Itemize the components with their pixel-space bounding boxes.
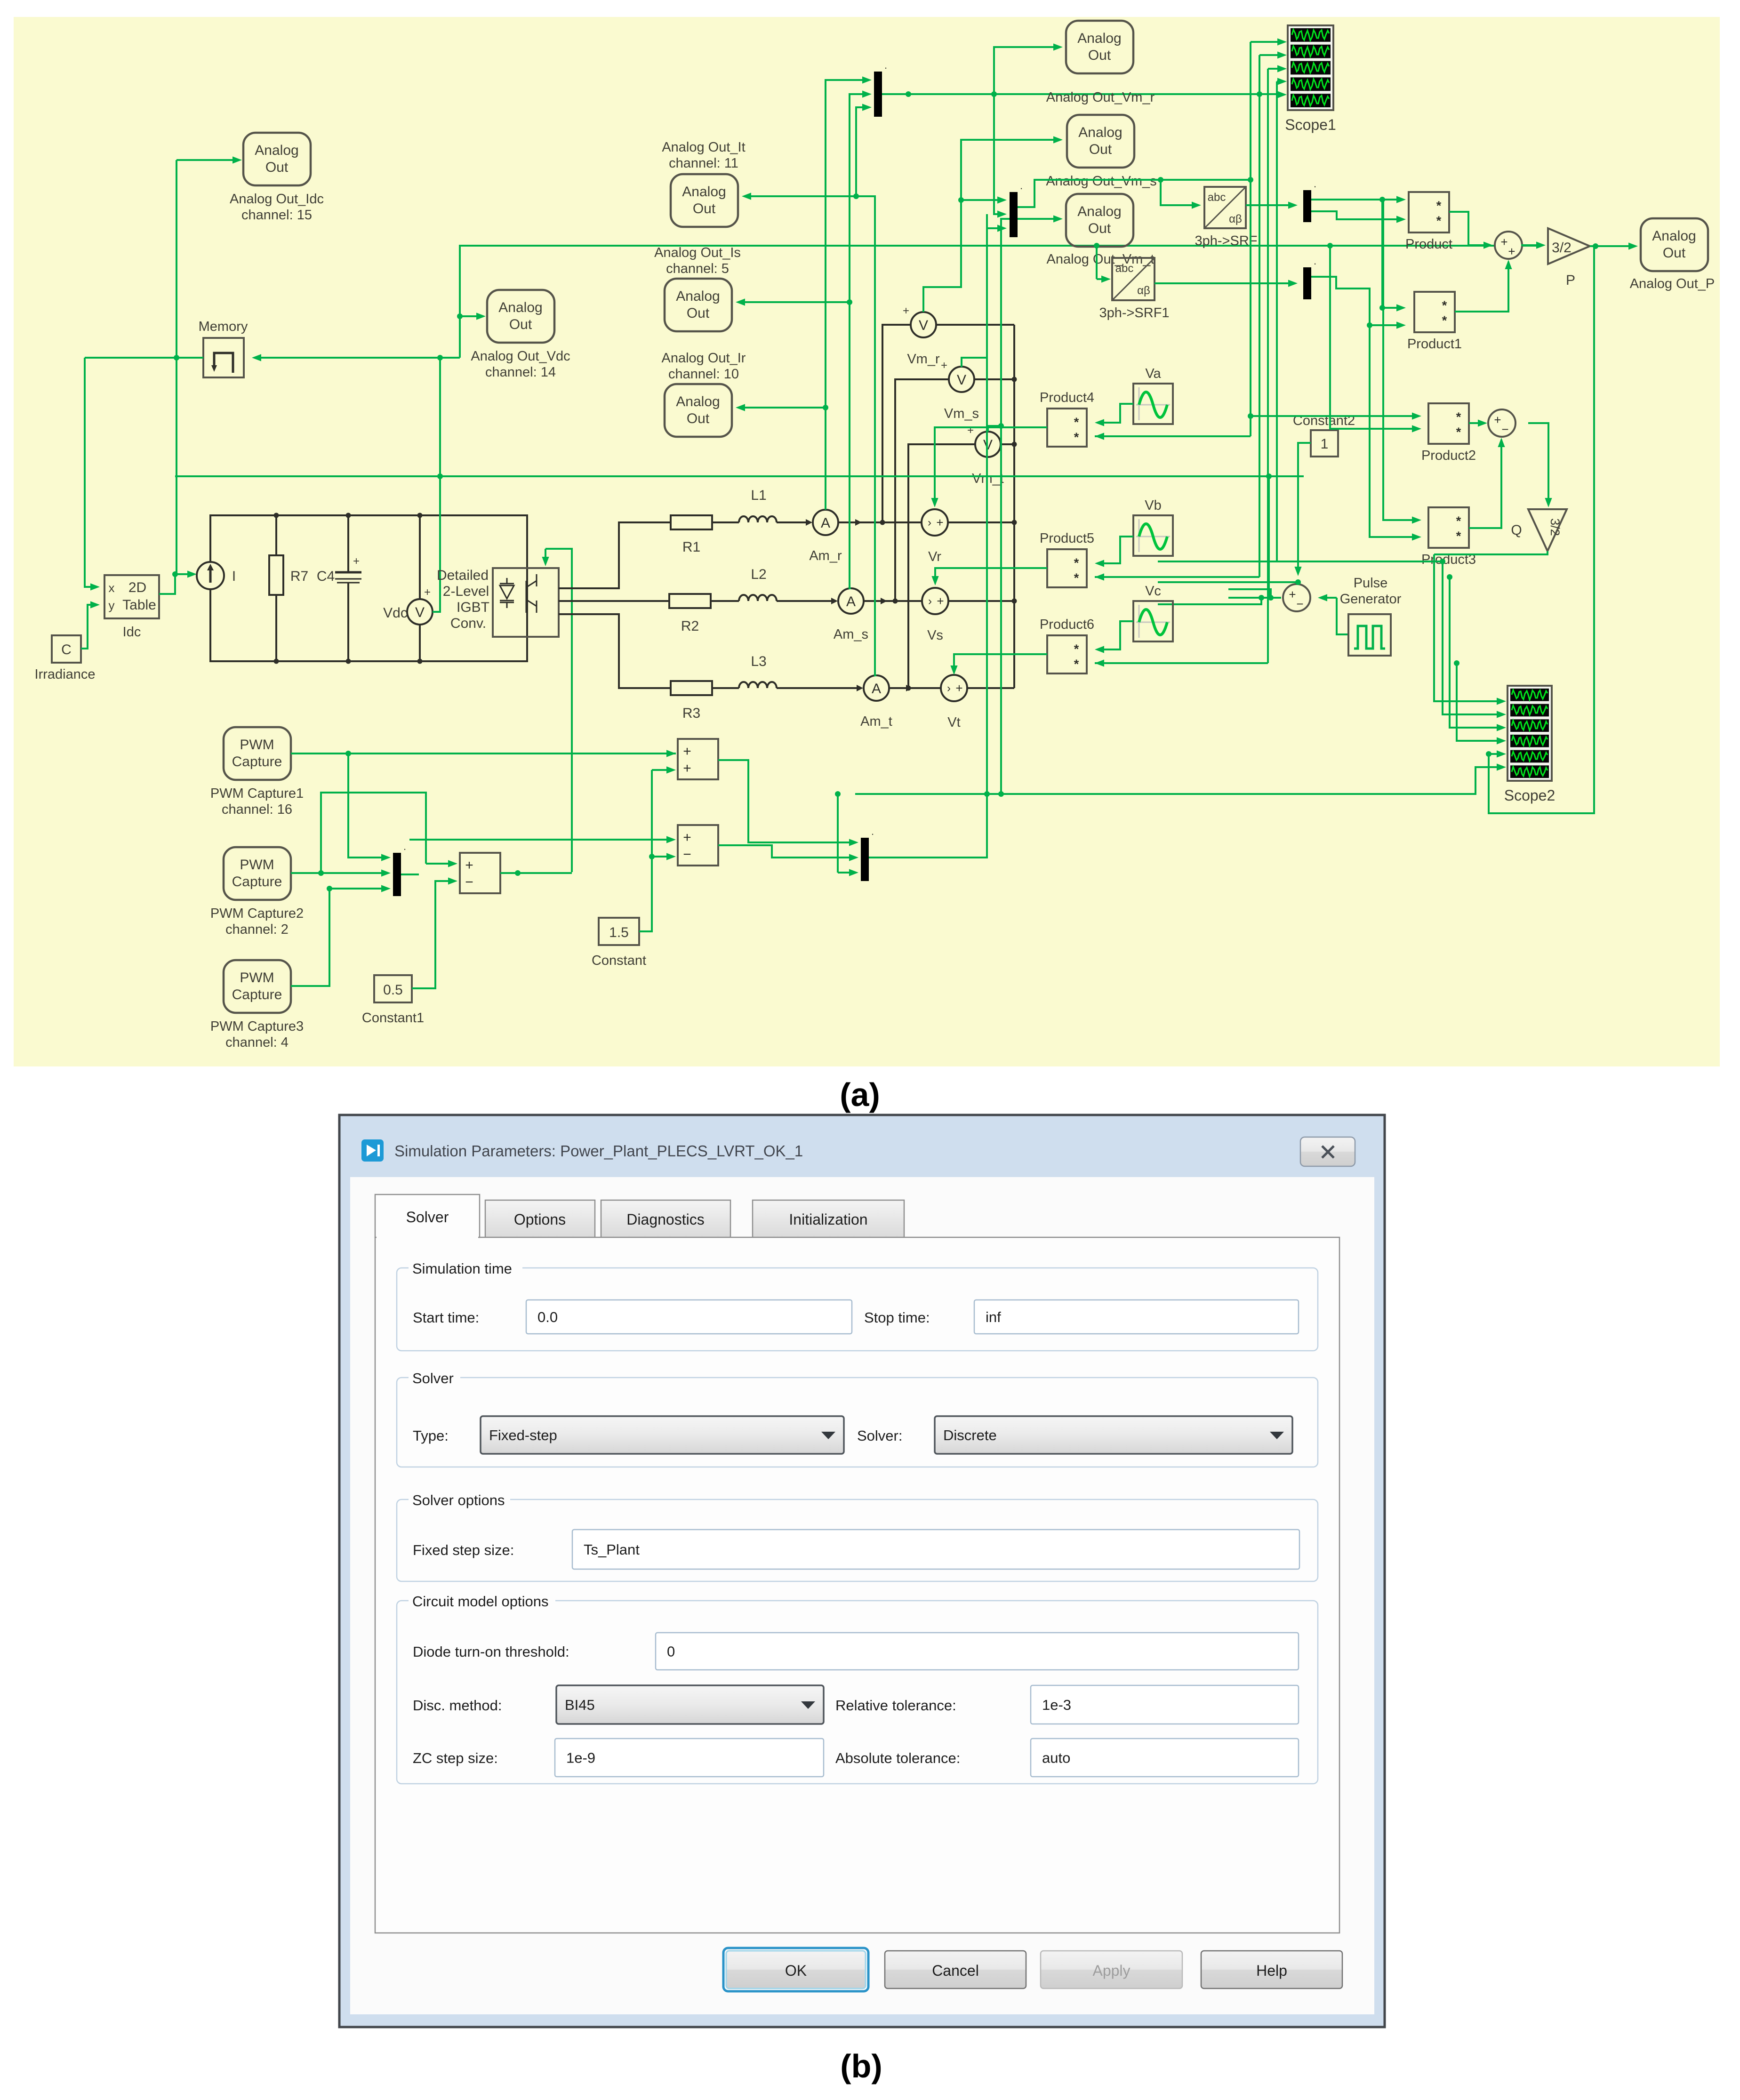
wire vertical net x2657 <box>1250 42 1251 436</box>
junction It <box>853 193 859 199</box>
wire Memory out to 2D Table x input <box>85 358 93 587</box>
arrow Scope2 input <box>1497 737 1506 744</box>
svg-text:PWM Capture1: PWM Capture1 <box>210 786 304 801</box>
svg-text:C4: C4 <box>317 569 335 584</box>
wire Vs to bus <box>949 600 1014 602</box>
wire Vm_s signal to mux2 in3 <box>962 228 1002 367</box>
svg-text:Vc: Vc <box>1145 584 1161 599</box>
svg-text:Simulation time: Simulation time <box>412 1260 512 1277</box>
wire PWM3 out <box>291 889 329 986</box>
phase wires after ammeters <box>838 521 921 523</box>
svg-text:Vdc: Vdc <box>383 605 408 621</box>
svg-text:Analog: Analog <box>1652 228 1696 244</box>
wire into mux6 in3 <box>838 872 855 874</box>
wire PG out elbow <box>1337 598 1348 634</box>
product Product2 <box>1428 403 1469 444</box>
svg-text:Analog Out_P: Analog Out_P <box>1630 276 1715 291</box>
wire net to Scope2 in4 <box>1457 663 1500 741</box>
svg-text:›: › <box>928 516 931 529</box>
svg-text:*: * <box>1074 430 1079 444</box>
svg-text:›: › <box>928 595 932 608</box>
svg-text:Solver: Solver <box>406 1209 449 1226</box>
svg-text:αβ: αβ <box>1229 213 1242 225</box>
svg-text:channel: 4: channel: 4 <box>225 1035 289 1050</box>
wire Scope1 in3 <box>1268 68 1281 70</box>
arrow Scope2 input <box>1497 697 1506 705</box>
gain 3/2 Q <box>1528 509 1567 551</box>
svg-text:Conv.: Conv. <box>450 616 486 631</box>
wire mux5 out stub <box>401 874 419 875</box>
transform block 3ph->SRF <box>1204 187 1246 228</box>
content panel <box>375 1237 1339 1933</box>
wire into Sub2 minus <box>652 856 672 858</box>
wire Va to Product4 in1 <box>1100 404 1133 423</box>
input Relative tolerance <box>1031 1685 1299 1724</box>
svg-text:channel: 15: channel: 15 <box>241 208 312 223</box>
svg-text:channel: 10: channel: 10 <box>668 367 739 382</box>
svg-text:.: . <box>884 59 887 71</box>
svg-text:Capture: Capture <box>232 987 282 1002</box>
svg-text:Start time:: Start time: <box>413 1309 479 1326</box>
wire Vdc net to right along y522 <box>460 246 1540 358</box>
svg-text:I: I <box>232 569 236 584</box>
PWM Capture block 1 <box>224 727 291 780</box>
svg-text:.: . <box>871 826 874 837</box>
node Am_t out <box>906 686 911 691</box>
svg-text:*: * <box>1456 529 1461 543</box>
svg-text:PWM: PWM <box>240 970 274 986</box>
svg-text:Product: Product <box>1405 237 1452 252</box>
arrow Scope2 input <box>1497 724 1506 731</box>
button OK <box>723 1948 868 1991</box>
svg-text:abc: abc <box>1115 262 1134 275</box>
wire to Sub1 plus <box>426 863 454 865</box>
svg-text:BI45: BI45 <box>565 1697 595 1713</box>
svg-text:.: . <box>403 841 406 852</box>
junction Vdc/mid net <box>437 473 443 479</box>
svg-text:PWM: PWM <box>240 737 274 753</box>
wire Product3 in2 feed <box>1370 325 1416 537</box>
svg-text:+: + <box>1289 587 1296 601</box>
wire Sub2 out to mux6 <box>718 845 855 858</box>
wire Product4 out to Vr <box>935 427 1047 503</box>
constant C Irradiance <box>52 635 81 663</box>
svg-text:Am_r: Am_r <box>809 548 842 563</box>
svg-text:Analog: Analog <box>682 184 726 200</box>
svg-text:Out: Out <box>693 201 716 216</box>
svg-text:+: + <box>683 744 691 759</box>
svg-text:Analog Out_Ir: Analog Out_Ir <box>662 351 746 366</box>
capacitor C4 <box>347 515 349 572</box>
svg-text:Fixed-step: Fixed-step <box>489 1427 557 1443</box>
svg-text:(b): (b) <box>840 2048 882 2084</box>
junction <box>1379 305 1385 311</box>
PWM Capture block 2 <box>224 847 291 900</box>
svg-text:Help: Help <box>1256 1962 1287 1979</box>
wire It signal <box>747 195 856 197</box>
wire rail y1237 <box>1158 581 1298 583</box>
inductor L2 <box>739 595 777 601</box>
sum Sub1 <box>460 853 500 893</box>
svg-text:αβ: αβ <box>1137 284 1150 297</box>
wire riser to comparator <box>1268 476 1270 598</box>
wire mux3 out1 to Product in1 <box>1311 199 1400 200</box>
wire vertical net x2694 <box>1267 69 1269 663</box>
junction <box>1248 413 1253 419</box>
wire PWM2 branch to Sub1 <box>321 793 426 873</box>
svg-text:+: + <box>1508 244 1515 258</box>
wire mux3 out2 to Product in2 <box>1311 211 1400 219</box>
wire sumQ to gain Q <box>1528 423 1548 502</box>
wire Pulse Generator to sum <box>1323 597 1337 599</box>
svg-text:3/2: 3/2 <box>1552 240 1572 256</box>
junction Ir <box>823 405 828 410</box>
svg-text:Solver:: Solver: <box>857 1427 902 1444</box>
wire vertical net x2676 <box>1259 55 1260 577</box>
bus node <box>1012 520 1017 525</box>
wire Constant2 to sum <box>1298 443 1311 570</box>
junction rail <box>984 791 990 797</box>
wire big feedback loop <box>1489 246 1594 813</box>
svg-text:Fixed step size:: Fixed step size: <box>413 1542 514 1558</box>
node <box>274 659 279 664</box>
2D Table block Idc <box>104 575 159 618</box>
svg-text:Analog: Analog <box>676 289 720 304</box>
group box Solver options <box>397 1499 1318 1581</box>
phase R wire <box>559 522 806 588</box>
input Stop time <box>974 1300 1299 1334</box>
gain 3/2 P <box>1548 228 1590 264</box>
svg-text:channel: 11: channel: 11 <box>669 156 738 171</box>
svg-text:Irradiance: Irradiance <box>35 667 96 682</box>
svg-text:Vr: Vr <box>928 549 941 564</box>
wire Am_t signal to mux1 in3 <box>856 107 876 675</box>
node bus <box>1012 442 1017 447</box>
wire Vm_r signal riser to block2 <box>923 140 1057 312</box>
transform block 3ph->SRF1 <box>1112 258 1155 300</box>
input Diode threshold <box>656 1633 1299 1670</box>
pulse generator block <box>1348 614 1391 656</box>
Analog Out block Vm_t out <box>1066 194 1133 247</box>
svg-text:+: + <box>967 424 974 437</box>
svg-text:R7: R7 <box>290 569 308 584</box>
ammeter Am_t <box>864 675 889 701</box>
wire Product5 out to Vs <box>935 568 1047 581</box>
PWM Capture block 3 <box>224 960 291 1013</box>
junction Vdc net <box>437 355 443 361</box>
junction <box>515 870 521 876</box>
svg-text:+: + <box>683 830 691 845</box>
svg-text:Am_s: Am_s <box>834 627 868 642</box>
svg-text:ZC step size:: ZC step size: <box>413 1750 498 1766</box>
wire net to Scope2 in2 <box>1443 561 1500 714</box>
svg-text:.: . <box>1314 178 1316 190</box>
converter block Detailed 2-Level IGBT Conv. <box>493 568 559 637</box>
arrow Scope2 input <box>1497 750 1506 757</box>
svg-text:R1: R1 <box>682 539 700 555</box>
svg-text:Product5: Product5 <box>1040 531 1094 546</box>
svg-text:1.5: 1.5 <box>609 925 629 940</box>
constant 1.5 Constant <box>599 918 639 945</box>
sum P <box>1495 232 1522 259</box>
sum Q input <box>1488 409 1515 437</box>
svg-text:Am_t: Am_t <box>860 714 892 729</box>
arrow Scope1 input <box>1277 91 1287 98</box>
Analog Out block Vm_s out <box>1067 115 1134 168</box>
wire Constant 1.5 riser <box>639 770 652 931</box>
arrow Scope1 input <box>1277 65 1287 72</box>
Analog Out block Analog Out_Idc <box>243 133 311 185</box>
node <box>274 513 279 518</box>
wire rail y1193 <box>1158 561 1443 562</box>
node <box>417 513 423 518</box>
svg-text:*: * <box>1456 410 1461 424</box>
svg-text:Vt: Vt <box>947 715 960 730</box>
svg-text:Product2: Product2 <box>1421 448 1476 463</box>
wire mux4 out to Product1 in2 <box>1311 277 1400 325</box>
node Am_r out <box>880 520 885 525</box>
input ZC step size <box>555 1739 824 1777</box>
dropdown Solver Discrete <box>935 1416 1292 1454</box>
svg-text:3/2: 3/2 <box>1548 518 1562 536</box>
svg-text:Vm_r: Vm_r <box>907 352 940 367</box>
Analog Out block Vm_r out <box>1066 21 1133 73</box>
group box Simulation time <box>397 1268 1318 1351</box>
svg-text:Circuit model options: Circuit model options <box>412 1593 548 1610</box>
svg-text:PWM: PWM <box>240 857 274 873</box>
junction 1.5 net <box>649 854 655 859</box>
svg-text:Analog Out_It: Analog Out_It <box>662 140 745 155</box>
wire Scope2 in5 <box>1489 753 1500 755</box>
node <box>346 513 351 518</box>
resistor R7 <box>275 515 277 555</box>
tab Initialization <box>753 1200 904 1238</box>
svg-text:1e-9: 1e-9 <box>566 1750 595 1766</box>
svg-text:Relative tolerance:: Relative tolerance: <box>835 1697 956 1714</box>
wire mux6 out riser x2097 <box>869 214 987 858</box>
svg-text:Capture: Capture <box>232 874 282 890</box>
wire vertical net x2713 <box>1276 81 1278 561</box>
junction Idc/Memory row <box>174 355 179 361</box>
wire Product to sum <box>1449 212 1487 245</box>
wire to mux2 in1 <box>961 199 1002 201</box>
voltage source Vr <box>922 509 948 536</box>
svg-text:V: V <box>957 372 966 388</box>
wire Vdc measurement signal up <box>433 358 440 612</box>
svg-text:L3: L3 <box>751 654 766 669</box>
junction <box>1248 177 1253 183</box>
wire to Product1 in1 <box>1382 200 1400 308</box>
svg-text:Out: Out <box>1088 221 1111 236</box>
svg-text:Product4: Product4 <box>1040 390 1094 405</box>
svg-text:P: P <box>1566 273 1575 288</box>
svg-text:V: V <box>415 605 425 620</box>
wire Vc to Product6 in1 <box>1100 621 1133 649</box>
svg-text:*: * <box>1456 425 1461 439</box>
input Start time <box>526 1300 852 1334</box>
junction loop <box>1486 751 1491 757</box>
mux Mux5 <box>393 853 401 896</box>
junction PWM2 <box>318 870 324 876</box>
svg-text:Simulation Parameters: Power_P: Simulation Parameters: Power_Plant_PLECS… <box>394 1142 803 1160</box>
svg-text:Product6: Product6 <box>1040 617 1094 632</box>
input Fixed step size <box>572 1530 1299 1569</box>
wire 2D Table out to current source I <box>159 574 190 594</box>
svg-text:inf: inf <box>986 1309 1001 1325</box>
arrow Scope2 input <box>1497 711 1506 718</box>
wire stub SRF1 feed <box>1096 246 1098 279</box>
junction <box>1379 197 1385 202</box>
mux Mux4 <box>1303 267 1311 299</box>
mux Mux3 <box>1303 190 1311 222</box>
svg-text:Idc: Idc <box>123 625 141 640</box>
wire Product2 in2 from y522 rail <box>1330 246 1416 429</box>
svg-text:Solver options: Solver options <box>412 1492 505 1508</box>
wire left feed2 <box>1228 597 1271 599</box>
junction <box>345 751 351 756</box>
svg-text:+: + <box>1494 413 1501 427</box>
junction <box>991 91 997 97</box>
junction <box>998 791 1004 797</box>
svg-text:A: A <box>872 681 881 697</box>
svg-text:Ts_Plant: Ts_Plant <box>584 1541 640 1558</box>
svg-text:Analog Out_Idc: Analog Out_Idc <box>230 192 324 207</box>
svg-text:L1: L1 <box>751 488 766 503</box>
junction <box>1454 660 1459 666</box>
wire long rail y1012 <box>175 475 1304 477</box>
Vm_r measurement loop <box>882 325 1014 522</box>
svg-text:Analog: Analog <box>1077 204 1121 219</box>
junction <box>327 886 332 891</box>
svg-text:Cancel: Cancel <box>932 1962 979 1979</box>
svg-text:Pulse: Pulse <box>1354 576 1388 591</box>
svg-text:Q: Q <box>1511 522 1522 538</box>
svg-text:channel: 2: channel: 2 <box>225 922 289 937</box>
voltage source Vt <box>941 675 967 701</box>
svg-text:V: V <box>919 318 928 333</box>
wire long rail y1687 to Scope2 in6 <box>855 767 1500 794</box>
wire Memory output left <box>85 357 203 359</box>
svg-text:›: › <box>947 682 951 695</box>
resistor R2 <box>669 594 711 608</box>
svg-text:channel: 14: channel: 14 <box>485 365 556 380</box>
wire into 3ph->SRF1 <box>1097 278 1106 280</box>
svg-text:Vm_s: Vm_s <box>944 406 979 421</box>
wire modulation up to gate <box>545 549 572 872</box>
wire 3ph-SRF out to mux3 <box>1246 204 1292 206</box>
voltmeter Vm_r <box>911 312 936 337</box>
svg-text:Scope1: Scope1 <box>1285 116 1336 133</box>
svg-text:Type:: Type: <box>413 1427 449 1444</box>
svg-text:Capture: Capture <box>232 754 282 769</box>
sum Add1 <box>678 739 718 779</box>
svg-text:L2: L2 <box>751 567 766 582</box>
product Product5 <box>1047 549 1087 587</box>
wire Scope1 in1 <box>1251 41 1281 43</box>
junction y522 <box>1327 243 1333 248</box>
node <box>417 659 423 664</box>
svg-text:auto: auto <box>1042 1750 1070 1766</box>
junction <box>1447 574 1452 580</box>
node Am_s out <box>893 599 898 604</box>
svg-text:Table: Table <box>122 597 156 613</box>
svg-text:Discrete: Discrete <box>943 1427 997 1443</box>
svg-text:+: + <box>683 761 691 776</box>
wire into Add1 plus2 <box>652 769 672 771</box>
svg-text:A: A <box>821 515 830 531</box>
wire Vm_t signal riser to block3 <box>988 219 1057 432</box>
svg-text:Apply: Apply <box>1092 1962 1130 1979</box>
junction y522 rail <box>1094 243 1099 248</box>
measurement bus vertical <box>1013 325 1015 688</box>
svg-text:*: * <box>1074 571 1079 585</box>
wire Ir signal <box>741 407 826 409</box>
wire mux1 out to Scope1 in5 <box>994 93 1279 95</box>
svg-text:PWM Capture3: PWM Capture3 <box>210 1019 304 1034</box>
svg-text:Scope2: Scope2 <box>1504 787 1556 804</box>
wire Product2 to sumQ <box>1469 422 1482 424</box>
group box Circuit model options <box>397 1601 1318 1784</box>
dropdown Type Fixed-step <box>481 1416 844 1454</box>
inductor L3 <box>739 682 777 688</box>
svg-text:Analog Out_Vdc: Analog Out_Vdc <box>471 349 570 364</box>
junction Is <box>847 299 852 305</box>
Analog Out block Analog Out_Vdc <box>487 290 554 343</box>
junction <box>835 791 841 797</box>
voltmeter Vm_s <box>949 367 974 392</box>
close button <box>1300 1137 1355 1166</box>
voltmeter Vdc <box>419 515 421 599</box>
dialog Simulation Parameters window <box>339 1115 1385 2027</box>
junction <box>1367 322 1372 328</box>
svg-text:*: * <box>1074 642 1079 656</box>
Analog Out block Analog Out_Is <box>665 279 732 331</box>
wire Product6 out to Vt <box>954 654 1047 671</box>
svg-text:Out: Out <box>509 317 532 332</box>
svg-text:+: + <box>941 359 947 372</box>
Analog Out block Analog Out_P <box>1641 218 1708 271</box>
junction scope col <box>1257 91 1262 97</box>
svg-text:*: * <box>1074 556 1079 570</box>
svg-text:Analog Out_Vm_t: Analog Out_Vm_t <box>1047 252 1155 267</box>
button Apply <box>1041 1951 1182 1988</box>
svg-text:Options: Options <box>514 1211 566 1228</box>
wire to Analog Out_Vdc <box>460 315 478 317</box>
constant Constant2 <box>1311 430 1338 457</box>
ammeter Am_r <box>813 510 838 535</box>
voltmeter Vm_t <box>975 432 1001 457</box>
wire mux1 out to Analog Out_Vm_r <box>882 47 1056 94</box>
svg-text:channel: 16: channel: 16 <box>222 802 292 817</box>
svg-text:Disc. method:: Disc. method: <box>413 1697 502 1714</box>
svg-text:0.0: 0.0 <box>537 1309 558 1325</box>
wire Vb to Product5 in1 <box>1100 537 1133 563</box>
wire Q net to Scope2 in1 <box>1434 554 1500 701</box>
svg-text:Analog: Analog <box>676 394 720 409</box>
svg-text:Va: Va <box>1145 366 1161 381</box>
wire mux2 out rail y382 <box>1018 180 1251 207</box>
svg-text:Memory: Memory <box>199 319 248 334</box>
svg-text:Absolute tolerance:: Absolute tolerance: <box>835 1750 960 1766</box>
product Product1 <box>1414 292 1455 332</box>
Vm_t measurement loop <box>908 444 1014 688</box>
svg-text:Vs: Vs <box>927 628 943 643</box>
sine source Vb <box>1133 515 1173 556</box>
arrow Scope2 input <box>1497 763 1506 770</box>
wire rail to Product6 in2 <box>1095 662 1268 664</box>
wire Product3 to sumQ <box>1469 440 1501 528</box>
svg-text:2-Level: 2-Level <box>443 584 489 599</box>
